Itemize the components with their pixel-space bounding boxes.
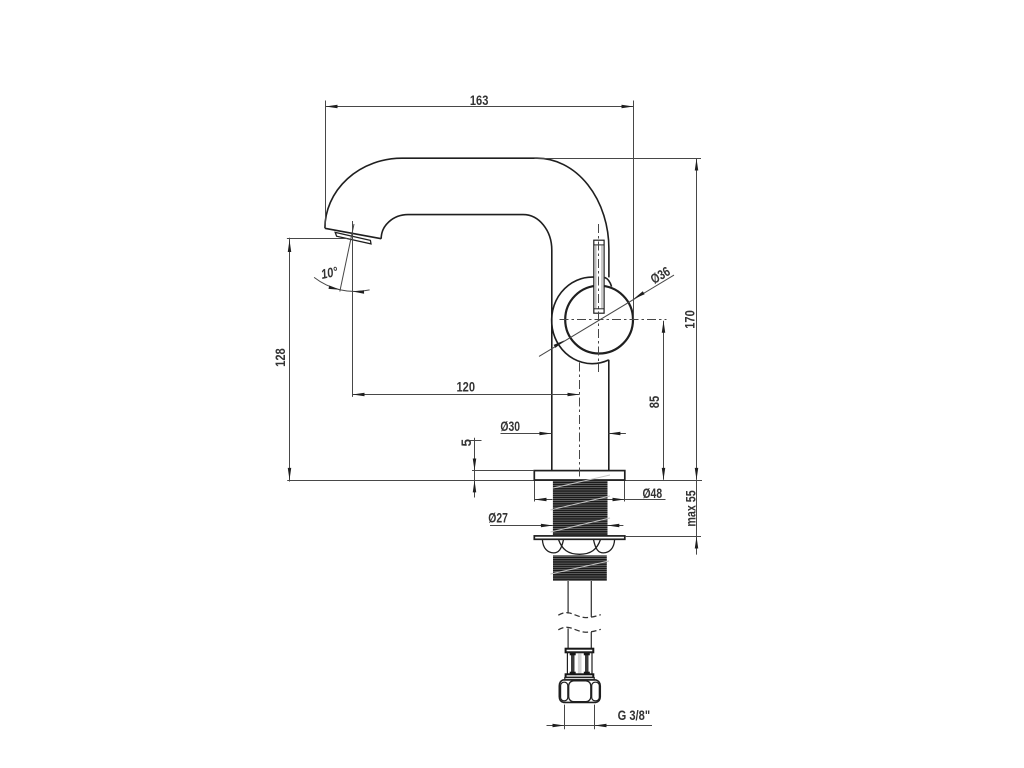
svg-text:G 3/8": G 3/8" [618, 708, 651, 723]
svg-text:Ø48: Ø48 [643, 486, 663, 501]
svg-text:128: 128 [273, 348, 288, 367]
svg-text:Ø27: Ø27 [488, 511, 508, 526]
svg-text:5: 5 [459, 439, 474, 447]
svg-text:85: 85 [647, 395, 662, 408]
svg-text:Ø30: Ø30 [500, 419, 520, 434]
svg-text:170: 170 [683, 310, 698, 329]
svg-text:120: 120 [457, 379, 476, 394]
svg-text:163: 163 [470, 93, 489, 108]
svg-text:max 55: max 55 [683, 490, 698, 527]
